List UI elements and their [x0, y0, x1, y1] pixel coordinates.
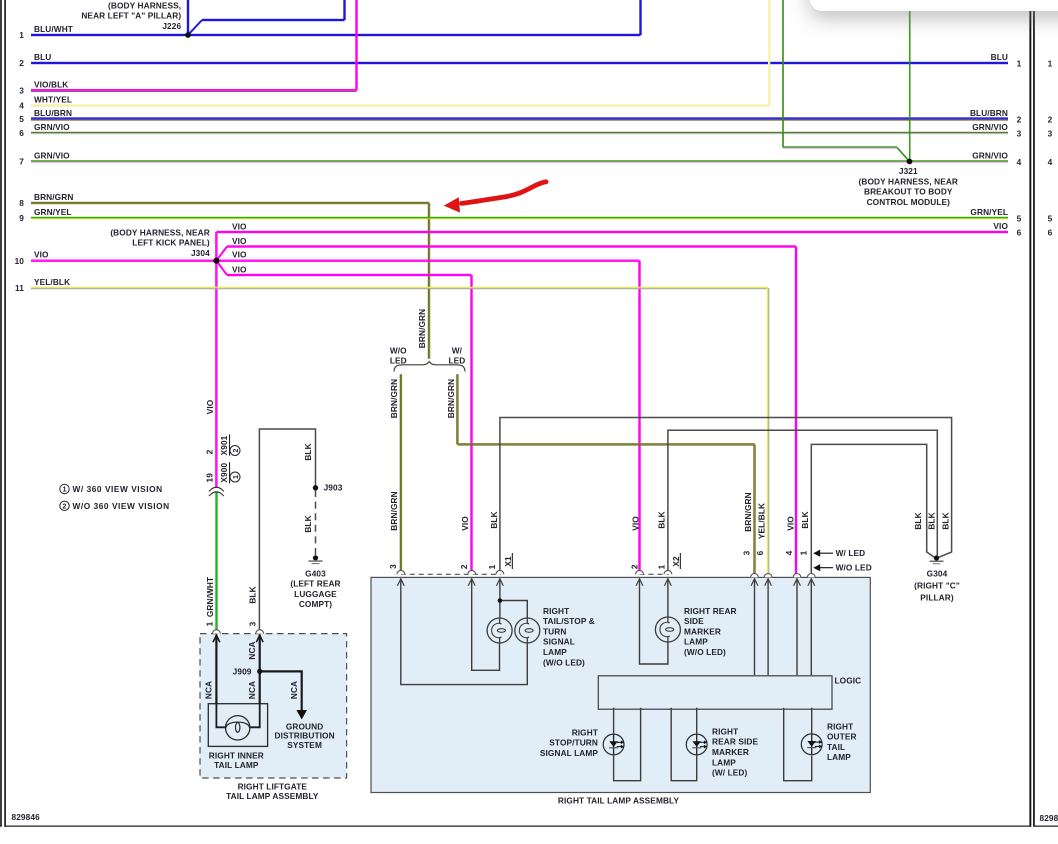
svg-text:BRN/GRN: BRN/GRN: [389, 491, 399, 530]
svg-text:LAMP: LAMP: [827, 752, 851, 762]
svg-text:RIGHT: RIGHT: [712, 726, 738, 736]
svg-text:RIGHT: RIGHT: [827, 721, 853, 731]
svg-text:SIGNAL LAMP: SIGNAL LAMP: [540, 748, 598, 758]
svg-text:2: 2: [1017, 115, 1022, 125]
svg-text:(BODY HARNESS,: (BODY HARNESS,: [108, 0, 181, 10]
svg-text:GRN/VIO: GRN/VIO: [34, 151, 70, 161]
svg-text:TAIL/STOP &: TAIL/STOP &: [543, 616, 595, 626]
svg-text:8298: 8298: [1040, 813, 1058, 823]
svg-text:NEAR LEFT "A" PILLAR): NEAR LEFT "A" PILLAR): [81, 11, 181, 21]
svg-text:2: 2: [233, 449, 240, 453]
svg-text:829846: 829846: [12, 812, 41, 822]
svg-text:1: 1: [657, 564, 667, 569]
svg-text:(W/ LED): (W/ LED): [712, 768, 747, 778]
svg-text:STOP/TURN: STOP/TURN: [549, 738, 598, 748]
svg-text:BRN/GRN: BRN/GRN: [389, 379, 399, 418]
svg-text:VIO/BLK: VIO/BLK: [34, 80, 68, 90]
svg-text:BRN/GRN: BRN/GRN: [417, 309, 427, 348]
svg-text:3: 3: [248, 621, 258, 626]
svg-text:BLK: BLK: [913, 512, 923, 529]
svg-text:W/O 360 VIEW VISION: W/O 360 VIEW VISION: [73, 501, 170, 511]
svg-text:VIO: VIO: [630, 516, 640, 531]
svg-text:8: 8: [19, 198, 24, 208]
svg-text:3: 3: [1048, 129, 1053, 139]
svg-text:BLK: BLK: [303, 515, 313, 532]
svg-text:VIO: VIO: [205, 399, 215, 414]
svg-text:GRN/VIO: GRN/VIO: [972, 122, 1008, 132]
svg-text:10: 10: [15, 256, 25, 266]
svg-text:TURN: TURN: [543, 626, 566, 636]
svg-text:BLU: BLU: [991, 52, 1008, 62]
svg-text:BLK: BLK: [926, 512, 936, 529]
svg-text:J304: J304: [191, 248, 210, 258]
svg-text:6: 6: [19, 128, 24, 138]
svg-text:J321: J321: [899, 166, 918, 176]
svg-text:1: 1: [19, 30, 24, 40]
svg-text:LED: LED: [390, 355, 407, 365]
svg-text:3: 3: [742, 550, 752, 555]
svg-text:2: 2: [630, 564, 640, 569]
svg-text:X2: X2: [671, 556, 681, 567]
svg-text:BLU/WHT: BLU/WHT: [34, 24, 73, 34]
svg-text:1: 1: [798, 550, 808, 555]
svg-text:(W/O LED): (W/O LED): [543, 657, 585, 667]
svg-text:1: 1: [1048, 59, 1053, 69]
svg-text:NCA: NCA: [204, 681, 214, 699]
svg-text:2: 2: [63, 503, 67, 510]
svg-text:TAIL LAMP ASSEMBLY: TAIL LAMP ASSEMBLY: [226, 791, 319, 801]
svg-text:NCA: NCA: [289, 681, 299, 699]
svg-text:MARKER: MARKER: [712, 747, 749, 757]
svg-text:VIO: VIO: [232, 250, 247, 260]
svg-text:BLU: BLU: [34, 52, 51, 62]
svg-text:5: 5: [1017, 214, 1022, 224]
svg-text:3: 3: [1017, 129, 1022, 139]
svg-text:4: 4: [19, 101, 24, 111]
svg-text:(BODY HARNESS, NEAR: (BODY HARNESS, NEAR: [110, 227, 209, 237]
svg-text:GRN/VIO: GRN/VIO: [972, 151, 1008, 161]
svg-text:SYSTEM: SYSTEM: [287, 740, 322, 750]
svg-text:W/O LED: W/O LED: [836, 562, 872, 572]
svg-text:2: 2: [19, 58, 24, 68]
svg-text:CONTROL MODULE): CONTROL MODULE): [867, 197, 951, 207]
svg-text:6: 6: [1048, 228, 1053, 238]
svg-text:BLU/BRN: BLU/BRN: [34, 108, 72, 118]
svg-text:BLK: BLK: [303, 443, 313, 460]
svg-text:J909: J909: [233, 667, 252, 677]
svg-text:BRN/GRN: BRN/GRN: [34, 192, 73, 202]
svg-text:7: 7: [19, 157, 24, 167]
svg-text:BLU/BRN: BLU/BRN: [970, 108, 1008, 118]
svg-text:W/: W/: [452, 346, 463, 356]
svg-text:W/ LED: W/ LED: [836, 548, 866, 558]
svg-text:(RIGHT "C": (RIGHT "C": [914, 580, 960, 590]
svg-text:LEFT KICK PANEL): LEFT KICK PANEL): [132, 238, 210, 248]
svg-text:TAIL: TAIL: [827, 742, 845, 752]
svg-text:RIGHT TAIL LAMP ASSEMBLY: RIGHT TAIL LAMP ASSEMBLY: [558, 795, 680, 805]
svg-text:VIO: VIO: [34, 250, 49, 260]
svg-text:VIO: VIO: [232, 264, 247, 274]
svg-text:VIO: VIO: [232, 236, 247, 246]
svg-text:TAIL LAMP: TAIL LAMP: [214, 760, 259, 770]
svg-text:5: 5: [1048, 214, 1053, 224]
svg-text:GRN/WHT: GRN/WHT: [205, 577, 215, 617]
svg-text:1: 1: [487, 564, 497, 569]
svg-text:5: 5: [19, 114, 24, 124]
svg-text:1: 1: [1017, 59, 1022, 69]
svg-text:11: 11: [15, 283, 24, 293]
svg-text:(BODY HARNESS, NEAR: (BODY HARNESS, NEAR: [859, 176, 958, 186]
svg-text:W/ 360 VIEW VISION: W/ 360 VIEW VISION: [73, 484, 163, 494]
svg-text:1: 1: [233, 475, 240, 479]
svg-text:RIGHT: RIGHT: [572, 727, 598, 737]
svg-text:BLK: BLK: [489, 511, 499, 528]
svg-text:BRN/GRN: BRN/GRN: [743, 492, 753, 531]
svg-text:NCA: NCA: [247, 641, 257, 659]
svg-text:4: 4: [784, 550, 794, 555]
svg-text:RIGHT: RIGHT: [543, 606, 569, 616]
svg-text:GRN/YEL: GRN/YEL: [970, 207, 1008, 217]
svg-text:2: 2: [459, 564, 469, 569]
svg-text:SIGNAL: SIGNAL: [543, 637, 575, 647]
svg-text:WHT/YEL: WHT/YEL: [34, 95, 72, 105]
svg-text:(LEFT REAR: (LEFT REAR: [290, 579, 340, 589]
svg-text:MARKER: MARKER: [684, 626, 721, 636]
svg-text:2: 2: [1048, 115, 1053, 125]
svg-text:YEL/BLK: YEL/BLK: [757, 503, 767, 539]
svg-text:VIO: VIO: [460, 516, 470, 531]
svg-text:BLK: BLK: [800, 511, 810, 528]
svg-text:J903: J903: [324, 483, 343, 493]
svg-text:J226: J226: [162, 21, 181, 31]
svg-text:(W/O LED): (W/O LED): [684, 647, 726, 657]
svg-text:GRN/VIO: GRN/VIO: [34, 122, 70, 132]
svg-text:VIO: VIO: [232, 221, 247, 231]
svg-text:1: 1: [63, 487, 67, 494]
svg-text:LAMP: LAMP: [684, 637, 708, 647]
svg-text:BRN/GRN: BRN/GRN: [446, 379, 456, 418]
svg-text:VIO: VIO: [993, 221, 1008, 231]
svg-text:6: 6: [755, 550, 765, 555]
svg-text:X1: X1: [503, 556, 513, 567]
svg-text:4: 4: [1048, 157, 1053, 167]
svg-text:LED: LED: [448, 355, 465, 365]
svg-text:3: 3: [19, 86, 24, 96]
svg-text:OUTER: OUTER: [827, 732, 857, 742]
svg-text:GRN/YEL: GRN/YEL: [34, 207, 72, 217]
svg-text:1: 1: [204, 621, 214, 626]
svg-text:9: 9: [19, 213, 24, 223]
svg-text:6: 6: [1017, 228, 1022, 238]
svg-text:W/O: W/O: [390, 346, 407, 356]
svg-text:G304: G304: [927, 568, 948, 578]
svg-text:RIGHT REAR: RIGHT REAR: [684, 606, 737, 616]
svg-text:G403: G403: [305, 568, 326, 578]
svg-text:2: 2: [205, 449, 215, 454]
svg-text:BLK: BLK: [941, 512, 951, 529]
svg-text:LOGIC: LOGIC: [835, 676, 862, 686]
svg-text:NCA: NCA: [247, 681, 257, 699]
svg-text:RIGHT INNER: RIGHT INNER: [209, 750, 264, 760]
svg-text:LUGGAGE: LUGGAGE: [294, 589, 337, 599]
svg-text:3: 3: [388, 564, 398, 569]
svg-text:X900: X900: [219, 463, 229, 483]
svg-text:BLK: BLK: [657, 511, 667, 528]
svg-text:VIO: VIO: [786, 516, 796, 531]
svg-text:LAMP: LAMP: [543, 647, 567, 657]
svg-text:SIDE: SIDE: [684, 616, 704, 626]
svg-text:PILLAR): PILLAR): [920, 592, 954, 602]
svg-text:BREAKOUT TO BODY: BREAKOUT TO BODY: [864, 187, 953, 197]
svg-text:COMPT): COMPT): [299, 599, 332, 609]
svg-text:REAR SIDE: REAR SIDE: [712, 737, 758, 747]
svg-text:LAMP: LAMP: [712, 757, 736, 767]
svg-text:4: 4: [1017, 157, 1022, 167]
svg-text:BLK: BLK: [248, 586, 258, 603]
svg-text:19: 19: [205, 473, 215, 483]
svg-text:X901: X901: [219, 435, 229, 455]
svg-text:YEL/BLK: YEL/BLK: [34, 277, 70, 287]
